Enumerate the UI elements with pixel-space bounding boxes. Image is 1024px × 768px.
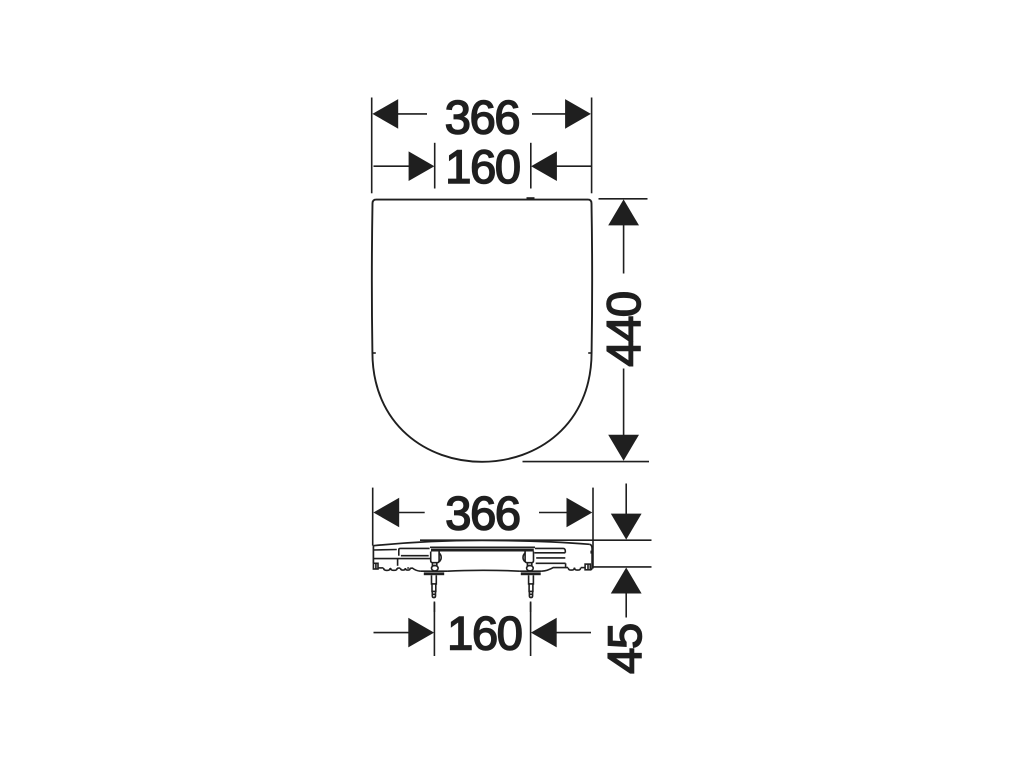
dimension 45: down arrow: [611, 514, 642, 540]
dimension 160 bottom: left arrow: [408, 618, 434, 648]
dimension 366 bottom: right extension line: [592, 488, 594, 569]
side view: right bottom edge with bumper feet: [542, 568, 586, 572]
side view: right tip bumper square: [585, 564, 590, 570]
dimension 45: lower vertical line: [625, 593, 627, 618]
dimension 160 bottom: leader lines: [374, 632, 592, 634]
dimension 440: value label (rotated): [597, 292, 650, 367]
side view: seat outer top arc: [374, 540, 590, 545]
side view: left end edge: [372, 546, 374, 564]
dimension 160 bottom: value label: [447, 606, 522, 659]
dimension 45: top extension line: [420, 539, 652, 541]
dimension 440: bottom extension line: [523, 461, 650, 463]
dimension 366 bottom: left extension line: [372, 488, 374, 546]
side view: right hinge post: [523, 552, 534, 571]
dimension 45: bottom extension line: [593, 566, 652, 568]
dimension 160 top: left arrow: [409, 151, 435, 181]
side view: left hinge post: [431, 552, 442, 571]
svg-text:366: 366: [445, 91, 520, 144]
dimension 366 top: right extension line: [591, 98, 593, 194]
extension line below left bolt: [433, 602, 435, 613]
side view: center thick bar (lid/ring gap): [431, 549, 534, 552]
dimension 160 top: right arrow: [531, 151, 557, 181]
dimension 160 bottom: right arrow: [531, 618, 557, 648]
dimension 160 bottom: left extension line: [433, 603, 435, 657]
dimension 160 bottom: right extension line: [530, 603, 532, 657]
side view: ring bottom line between flanges: [447, 569, 519, 572]
dimension 440: top arrow (up): [608, 199, 639, 225]
dimension 45: upper vertical line: [625, 484, 627, 516]
side view: right flange bar: [521, 572, 541, 575]
side view: left inner lid line: [374, 549, 397, 552]
side view: left block lines: [374, 548, 431, 565]
side view: right flange washer line: [520, 570, 542, 572]
dimension 366 top: left extension line: [371, 98, 373, 194]
side view: left bottom edge with bumper feet: [378, 567, 420, 571]
side view: right block lines: [534, 548, 565, 567]
svg-text:160: 160: [447, 606, 522, 659]
dimension 160 top: left extension line: [434, 143, 436, 189]
dimension 160 top: value label: [445, 140, 520, 193]
side view: left flange bar: [424, 572, 444, 575]
dimension 45: value label (rotated): [598, 624, 651, 674]
side view: left tip bumper square: [373, 563, 378, 569]
dimension 366 top: left arrow: [372, 99, 398, 129]
side view: right end edge: [590, 544, 592, 570]
side view: right bolt: [529, 575, 534, 597]
dimension 366 bottom: right arrow: [567, 498, 593, 528]
svg-text:45: 45: [598, 624, 651, 674]
dimension 366 bottom: value label: [445, 487, 520, 540]
top view seat outline: [372, 200, 592, 462]
top view arc junction tick right: [588, 352, 592, 354]
side view: left bolt: [432, 575, 437, 597]
dimension 366 top: right arrow: [565, 99, 591, 129]
dimension 366 bottom: left arrow: [373, 498, 399, 528]
side view: inner lid bottom line between hinges: [430, 546, 535, 548]
top view arc junction tick left: [372, 352, 376, 354]
dimension 440: top extension line: [599, 198, 648, 200]
top view hinge nub on top edge: [527, 197, 535, 199]
dimension 440: bottom arrow (down): [608, 435, 639, 461]
side view: left flange washer line: [420, 570, 447, 572]
svg-text:440: 440: [597, 292, 650, 367]
svg-text:366: 366: [445, 487, 520, 540]
extension line below right bolt: [530, 602, 532, 613]
dimension 160 top: right extension line: [530, 143, 532, 189]
dimension 45: up arrow: [611, 568, 642, 594]
dimension 366 bottom: dimension line segments: [399, 512, 568, 514]
svg-text:160: 160: [445, 140, 520, 193]
dimension 366 top: dimension line segments: [398, 113, 566, 115]
dimension 440: dimension line segments: [623, 225, 625, 436]
dimension 160 top: leader lines: [374, 165, 592, 167]
dimension 366 top: value label: [445, 91, 520, 144]
